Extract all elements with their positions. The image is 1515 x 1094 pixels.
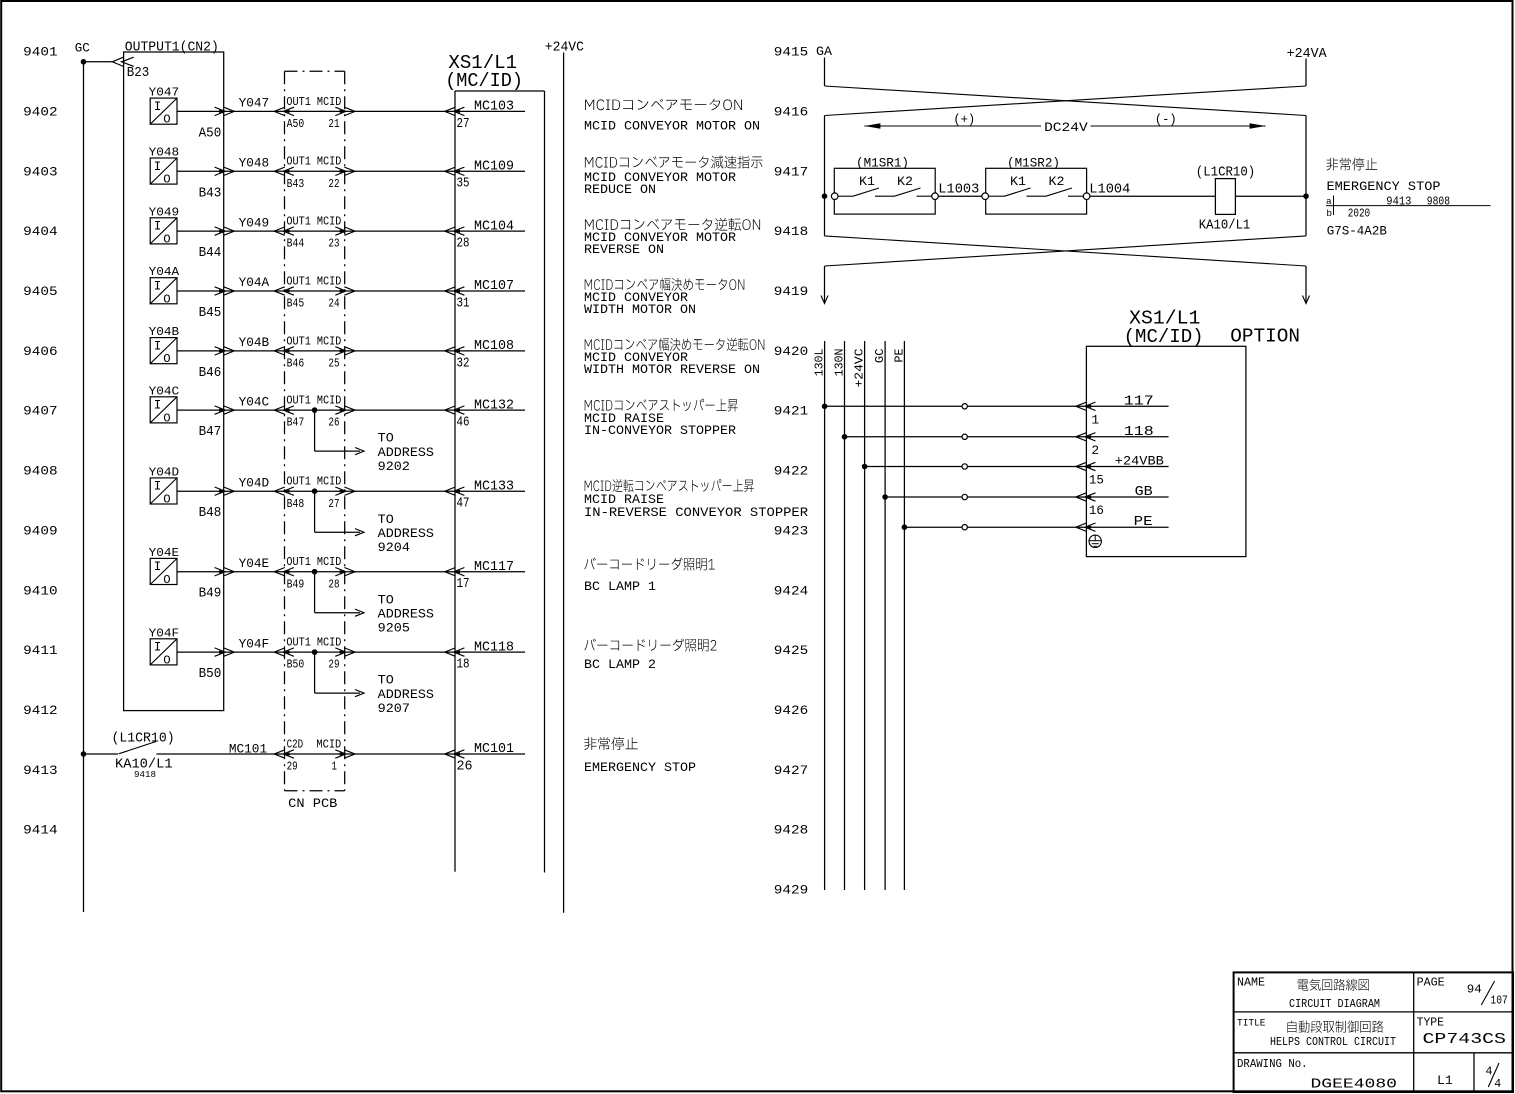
harness arrows into OPTION (117)	[1085, 402, 1096, 410]
harness arrows into OPTION (PE)	[1085, 523, 1096, 531]
wire left rail to arrow	[824, 266, 826, 303]
svg-text:WIDTH MOTOR ON: WIDTH MOTOR ON	[584, 302, 696, 317]
wire coil to right rail	[1235, 195, 1306, 197]
wire +24VA rail upper	[1305, 59, 1307, 87]
svg-text:9207: 9207	[378, 702, 410, 716]
svg-text:TO: TO	[378, 432, 394, 446]
svg-text:O: O	[163, 113, 170, 127]
svg-text:Y04F: Y04F	[239, 636, 270, 651]
node: junction 130L feed	[822, 404, 828, 410]
harness arrows out of CN PCB	[335, 648, 346, 656]
svg-text:118: 118	[1124, 425, 1154, 440]
PE earth symbol	[1089, 535, 1101, 547]
svg-text:9404: 9404	[23, 224, 58, 239]
svg-text:26: 26	[457, 759, 473, 774]
svg-text:32: 32	[457, 356, 470, 371]
svg-text:9204: 9204	[378, 541, 410, 555]
wire Y04E row	[177, 571, 525, 573]
svg-text:b: b	[1326, 208, 1332, 219]
svg-text:MC107: MC107	[474, 279, 514, 294]
svg-text:B44: B44	[199, 246, 222, 261]
harness arrows Y047 out of OUTPUT1	[215, 107, 226, 115]
wire +24VBB to OPTION connector	[865, 466, 1169, 468]
svg-text:TITLE: TITLE	[1237, 1018, 1266, 1030]
connector XS1/L1 box	[455, 90, 545, 92]
svg-text:MC133: MC133	[474, 479, 514, 494]
svg-text:ADDRESS: ADDRESS	[378, 527, 434, 541]
node: right rail junction 9417	[1303, 193, 1309, 199]
connector OUTPUT1(CN2) box	[124, 52, 224, 711]
svg-text:9424: 9424	[774, 583, 809, 598]
svg-text:18: 18	[457, 658, 470, 673]
svg-text:B49: B49	[199, 587, 222, 602]
svg-text:B43: B43	[199, 186, 222, 201]
svg-text:9405: 9405	[23, 284, 57, 299]
I/O symbol Y049	[150, 218, 177, 244]
wire branch to address 9205	[314, 572, 316, 613]
svg-text:9416: 9416	[774, 104, 808, 119]
svg-text:K1: K1	[859, 174, 875, 189]
svg-text:35: 35	[457, 177, 470, 192]
annotation JP: MCID逆転コンベアストッパー上昇	[585, 479, 754, 492]
svg-text:28: 28	[328, 577, 339, 591]
svg-text:MC108: MC108	[474, 339, 514, 354]
svg-text:OUT1 MCID: OUT1 MCID	[286, 394, 341, 408]
svg-text:9406: 9406	[23, 344, 57, 359]
contact terminals M1SR1	[831, 193, 838, 200]
svg-text:BC LAMP 2: BC LAMP 2	[584, 657, 656, 672]
svg-text:(L1CR10): (L1CR10)	[112, 732, 175, 747]
svg-text:O: O	[163, 493, 170, 507]
harness arrows into CN PCB	[283, 347, 294, 355]
wire PE to OPTION connector	[904, 526, 1168, 528]
svg-text:9408: 9408	[23, 464, 57, 479]
svg-text:GC: GC	[873, 349, 887, 364]
svg-text:46: 46	[457, 416, 470, 431]
harness arrows into XS1/L1	[454, 167, 465, 175]
svg-text:+24VBB: +24VBB	[1115, 454, 1164, 469]
svg-text:9410: 9410	[23, 583, 57, 598]
GC bus wire (vertical)	[83, 62, 85, 912]
title block outer box	[1234, 972, 1513, 1092]
svg-text:(+): (+)	[953, 112, 975, 127]
svg-text:26: 26	[328, 416, 339, 430]
svg-text:9419: 9419	[774, 284, 808, 299]
harness arrows into CN PCB	[283, 107, 294, 115]
svg-text:B45: B45	[199, 306, 222, 321]
wire L1004 to coil	[1090, 195, 1215, 197]
svg-text:17: 17	[457, 577, 470, 592]
svg-text:2020: 2020	[1348, 208, 1371, 221]
svg-text:1: 1	[332, 760, 338, 774]
wire L1003	[938, 195, 982, 197]
svg-text:(MC/ID): (MC/ID)	[1124, 326, 1204, 348]
wire crossover upper (GA to right)	[825, 86, 1307, 116]
I/O symbol Y04C	[150, 397, 177, 423]
svg-text:O: O	[163, 173, 170, 187]
svg-text:I: I	[154, 399, 162, 413]
svg-text:TO: TO	[378, 674, 394, 688]
svg-text:130N: 130N	[833, 349, 847, 377]
harness arrows into XS1/L1	[454, 107, 465, 115]
wire GB to OPTION connector	[885, 496, 1169, 498]
svg-text:GB: GB	[1135, 485, 1153, 500]
svg-text:O: O	[163, 352, 170, 366]
harness arrows into CN PCB	[283, 287, 294, 295]
svg-text:9205: 9205	[378, 622, 410, 636]
bus wire PE (vertical)	[903, 341, 905, 890]
svg-text:27: 27	[457, 117, 470, 132]
svg-text:Y04C: Y04C	[239, 394, 270, 409]
harness arrows into CN PCB	[283, 487, 294, 495]
svg-text:REDUCE ON: REDUCE ON	[584, 182, 656, 197]
svg-text:27: 27	[328, 497, 339, 511]
svg-text:IN-CONVEYOR STOPPER: IN-CONVEYOR STOPPER	[584, 423, 736, 438]
wire Y04D row	[177, 490, 525, 492]
svg-text:I: I	[154, 100, 162, 114]
svg-text:DGEE4080: DGEE4080	[1311, 1077, 1398, 1093]
annotation JP: MCIDコンベアモータ減速指示	[585, 156, 763, 169]
wire right rail mid	[1305, 116, 1307, 236]
svg-text:9412: 9412	[23, 703, 57, 718]
svg-text:9425: 9425	[774, 643, 808, 658]
node: junction on GC bus at 9413	[81, 751, 87, 757]
svg-text:A50: A50	[199, 126, 222, 141]
svg-text:9418: 9418	[774, 224, 808, 239]
annotation JP: バーコードリーダ照明2	[584, 639, 716, 652]
annotation JP: MCIDコンベア幅決めモータON	[585, 278, 745, 291]
wire branch to address 9207	[314, 652, 316, 693]
harness arrows into XS1/L1	[454, 568, 465, 576]
inline connector circle on 117 wire	[962, 404, 967, 409]
annotation JP: MCIDコンベアストッパー上昇	[585, 399, 738, 412]
connector XS1/L1 OPTION box	[1086, 346, 1246, 556]
contacts K1 K2 M1SR1	[838, 195, 853, 197]
bus wire GC (vertical)	[884, 341, 886, 890]
svg-text:Y049: Y049	[239, 215, 270, 230]
svg-text:9417: 9417	[774, 164, 808, 179]
wire right rail to arrow	[1305, 266, 1307, 303]
harness arrows out of CN PCB	[335, 167, 346, 175]
harness arrows out of CN PCB	[335, 227, 346, 235]
svg-text:NAME: NAME	[1237, 977, 1265, 990]
svg-text:MC109: MC109	[474, 160, 514, 175]
svg-text:REVERSE ON: REVERSE ON	[584, 242, 664, 257]
svg-text:Y047: Y047	[149, 86, 180, 100]
svg-text:OUT1 MCID: OUT1 MCID	[286, 274, 341, 288]
wire crossover upper (+24VA to left)	[825, 86, 1307, 116]
svg-text:15: 15	[1089, 473, 1104, 488]
svg-text:(-): (-)	[1155, 112, 1177, 127]
annotation JP: バーコードリーダ照明1	[584, 558, 714, 571]
svg-text:9413: 9413	[23, 763, 57, 778]
svg-text:I: I	[154, 220, 162, 234]
svg-text:MC104: MC104	[474, 219, 514, 234]
svg-text:47: 47	[457, 497, 470, 512]
svg-text:GC: GC	[75, 41, 90, 56]
svg-text:9420: 9420	[774, 344, 808, 359]
svg-text:C2D: C2D	[287, 737, 304, 751]
svg-text:9411: 9411	[23, 643, 58, 658]
svg-text:+24VA: +24VA	[1287, 47, 1328, 62]
harness arrows out of CN PCB	[335, 568, 346, 576]
svg-text:PAGE: PAGE	[1417, 977, 1445, 990]
harness arrows into XS1/L1	[454, 287, 465, 295]
harness arrows Y04B out of OUTPUT1	[215, 347, 226, 355]
harness arrows out of CN PCB	[335, 107, 346, 115]
svg-text:MCID: MCID	[316, 737, 341, 751]
svg-text:9413: 9413	[1386, 196, 1411, 209]
svg-text:OUT1 MCID: OUT1 MCID	[286, 334, 341, 348]
I/O symbol Y04B	[150, 338, 177, 364]
svg-text:9421: 9421	[774, 404, 809, 419]
svg-text:B49: B49	[287, 577, 305, 591]
svg-text:MC117: MC117	[474, 560, 514, 575]
svg-text:I: I	[154, 560, 162, 574]
node: junction PE feed	[902, 524, 908, 530]
safety relay block M1SR2 box	[986, 168, 1087, 214]
wire Y048 row	[177, 170, 525, 172]
wire branch to address 9204	[314, 491, 316, 532]
svg-text:Y04E: Y04E	[239, 556, 270, 571]
svg-text:Y048: Y048	[239, 156, 270, 171]
svg-text:Y049: Y049	[149, 205, 180, 219]
annotation DC24V with span arrows	[864, 125, 1041, 127]
svg-text:BC LAMP 1: BC LAMP 1	[584, 579, 656, 594]
inline connector circle on 118 wire	[962, 434, 967, 439]
svg-text:130L: 130L	[813, 349, 827, 377]
harness arrows into CN PCB	[283, 227, 294, 235]
svg-text:OPTION: OPTION	[1230, 326, 1300, 348]
svg-text:GA: GA	[816, 44, 832, 59]
svg-text:B48: B48	[287, 497, 305, 511]
svg-text:B50: B50	[199, 667, 222, 682]
harness arrows into CN PCB	[283, 406, 294, 414]
svg-text:16: 16	[1089, 503, 1104, 518]
title block dividers	[1234, 1011, 1513, 1013]
harness arrows into CN PCB	[283, 648, 294, 656]
wire 117 to OPTION connector	[825, 405, 1169, 407]
wire Y049 row	[177, 230, 525, 232]
svg-text:ADDRESS: ADDRESS	[378, 688, 434, 702]
I/O symbol Y047	[150, 98, 177, 124]
node: junction 130N feed	[842, 434, 848, 440]
svg-text:B46: B46	[199, 366, 222, 381]
safety relay block M1SR1 box	[834, 168, 935, 214]
svg-text:B47: B47	[287, 416, 305, 430]
annotation JP: 非常停止 (right)	[1327, 158, 1378, 171]
harness arrows Y049 out of OUTPUT1	[215, 227, 226, 235]
svg-text:B46: B46	[287, 357, 305, 371]
svg-text:28: 28	[457, 237, 470, 252]
inline connector circle on +24VBB wire	[962, 464, 967, 469]
harness arrows Y04D out of OUTPUT1	[215, 487, 226, 495]
harness arrows out of CN PCB (MC101)	[335, 750, 346, 758]
wire 118 to OPTION connector	[845, 436, 1169, 438]
wire Y04B row	[177, 350, 525, 352]
harness arrows Y04A out of OUTPUT1	[215, 287, 226, 295]
harness arrows into XS1/L1	[454, 648, 465, 656]
bus wire 130L (vertical)	[824, 341, 826, 890]
svg-text:9414: 9414	[23, 823, 58, 838]
svg-text:Y04D: Y04D	[239, 475, 270, 490]
svg-text:PE: PE	[1134, 515, 1153, 530]
svg-text:O: O	[163, 653, 170, 667]
svg-text:OUTPUT1(CN2): OUTPUT1(CN2)	[125, 40, 219, 56]
svg-text:G7S-4A2B: G7S-4A2B	[1327, 224, 1388, 239]
svg-text:CIRCUIT DIAGRAM: CIRCUIT DIAGRAM	[1289, 997, 1380, 1011]
wire Y04A row	[177, 290, 525, 292]
I/O symbol Y04F	[150, 639, 177, 665]
svg-text:4: 4	[1494, 1078, 1501, 1091]
svg-text:L1004: L1004	[1089, 182, 1130, 197]
svg-text:K1: K1	[1010, 174, 1026, 189]
annotation JP: MCIDコンベアモータON	[585, 99, 742, 111]
contact KA10/L1 NO contact	[84, 753, 119, 755]
svg-text:94: 94	[1467, 984, 1482, 997]
svg-text:TO: TO	[378, 513, 394, 527]
svg-text:I: I	[154, 280, 162, 294]
svg-text:2: 2	[1091, 443, 1099, 458]
wire Y04C row	[177, 409, 525, 411]
svg-text:29: 29	[287, 760, 298, 774]
svg-text:KA10/L1: KA10/L1	[1199, 218, 1251, 233]
svg-text:MC118: MC118	[474, 640, 514, 655]
svg-text:31: 31	[457, 296, 470, 311]
svg-text:9429: 9429	[774, 883, 808, 898]
svg-text:TYPE: TYPE	[1417, 1017, 1444, 1030]
svg-text:OUT1 MCID: OUT1 MCID	[286, 555, 341, 569]
svg-text:O: O	[163, 411, 170, 425]
svg-text:ADDRESS: ADDRESS	[378, 446, 434, 460]
svg-text:K2: K2	[1049, 174, 1065, 189]
svg-text:21: 21	[328, 117, 339, 131]
svg-text:A50: A50	[287, 117, 305, 131]
svg-text:DRAWING No.: DRAWING No.	[1237, 1058, 1308, 1071]
harness arrows into OPTION (118)	[1085, 433, 1096, 441]
svg-text:B47: B47	[199, 425, 222, 440]
svg-text:9423: 9423	[774, 523, 808, 538]
node: left rail junction 9417	[822, 193, 828, 199]
harness arrows out of CN PCB	[335, 347, 346, 355]
harness arrows into XS1/L1 (MC101)	[454, 750, 465, 758]
svg-text:9402: 9402	[23, 104, 57, 119]
wire Y04F row	[177, 651, 525, 653]
harness arrows into CN PCB (MC101)	[283, 750, 294, 758]
svg-text:23: 23	[328, 237, 339, 251]
harness arrows into CN PCB	[283, 568, 294, 576]
wire GA rail upper	[824, 58, 826, 87]
node: junction +24VC feed	[862, 464, 868, 470]
svg-text:HELPS CONTROL CIRCUIT: HELPS CONTROL CIRCUIT	[1270, 1035, 1396, 1049]
harness arrows out of CN PCB	[335, 287, 346, 295]
svg-text:CN PCB: CN PCB	[288, 796, 337, 811]
+24VC bus wire (vertical)	[563, 53, 565, 913]
svg-text:MC103: MC103	[474, 100, 514, 115]
svg-text:9401: 9401	[23, 45, 58, 60]
node: GC junction at 9401	[81, 59, 87, 65]
svg-text:OUT1 MCID: OUT1 MCID	[286, 475, 341, 489]
svg-text:Y047: Y047	[239, 96, 270, 111]
svg-text:9202: 9202	[378, 460, 410, 474]
svg-text:IN-REVERSE CONVEYOR STOPPER: IN-REVERSE CONVEYOR STOPPER	[584, 505, 808, 520]
wire Y047 row	[177, 110, 525, 112]
svg-text:B50: B50	[287, 658, 305, 672]
svg-text:EMERGENCY STOP: EMERGENCY STOP	[1327, 179, 1441, 194]
node: branch junction Y04C	[312, 407, 318, 413]
svg-text:9808: 9808	[1427, 196, 1450, 209]
svg-text:DC24V: DC24V	[1044, 120, 1088, 135]
svg-text:MC132: MC132	[474, 398, 514, 413]
svg-text:9418: 9418	[134, 769, 156, 780]
bus wire +24VC (vertical)	[864, 341, 866, 890]
svg-text:9415: 9415	[774, 45, 808, 60]
harness arrows Y048 out of OUTPUT1	[215, 167, 226, 175]
svg-text:I: I	[154, 160, 162, 174]
svg-text:+24VC: +24VC	[545, 41, 584, 56]
svg-text:9428: 9428	[774, 823, 808, 838]
relay coil KA10/L1	[1215, 179, 1235, 215]
svg-text:(MC/ID): (MC/ID)	[445, 70, 523, 92]
svg-text:WIDTH MOTOR REVERSE ON: WIDTH MOTOR REVERSE ON	[584, 362, 760, 377]
node: branch junction Y04D	[312, 488, 318, 494]
wire crossover lower (left to right)	[825, 236, 1307, 266]
svg-text:Y04A: Y04A	[239, 275, 270, 290]
contact terminals M1SR2	[982, 193, 989, 200]
svg-text:B45: B45	[287, 297, 305, 311]
wire left rail mid	[824, 116, 826, 236]
svg-text:MC101: MC101	[474, 742, 514, 757]
svg-text:OUT1 MCID: OUT1 MCID	[286, 215, 341, 229]
svg-text:MC101: MC101	[229, 742, 267, 757]
svg-text:1: 1	[1091, 413, 1099, 428]
svg-text:OUT1 MCID: OUT1 MCID	[286, 155, 341, 169]
wire crossover lower (right to left)	[825, 236, 1307, 266]
node: branch junction Y04E	[312, 569, 318, 575]
svg-text:O: O	[163, 573, 170, 587]
svg-text:9422: 9422	[774, 464, 808, 479]
I/O symbol Y04E	[150, 558, 177, 584]
svg-text:TO: TO	[378, 593, 394, 607]
svg-text:O: O	[163, 292, 170, 306]
harness arrows into OPTION (+24VBB)	[1085, 462, 1096, 470]
annotation JP: MCIDコンベア幅決めモータ逆転ON	[585, 338, 765, 351]
harness arrows into XS1/L1	[454, 487, 465, 495]
svg-text:25: 25	[328, 357, 339, 371]
svg-text:OUT1 MCID: OUT1 MCID	[286, 636, 341, 650]
svg-text:O: O	[163, 232, 170, 246]
bus wire 130N (vertical)	[844, 341, 846, 890]
wire 9413 to CN PCB	[157, 753, 526, 755]
svg-text:PE: PE	[892, 349, 906, 363]
svg-text:B23: B23	[127, 66, 150, 81]
svg-text:MCID CONVEYOR MOTOR ON: MCID CONVEYOR MOTOR ON	[584, 119, 760, 134]
node: junction GC feed	[882, 494, 888, 500]
harness arrows into XS1/L1	[454, 227, 465, 235]
svg-text:OUT1 MCID: OUT1 MCID	[286, 95, 341, 109]
svg-text:L1003: L1003	[938, 182, 979, 197]
svg-text:9409: 9409	[23, 523, 57, 538]
svg-text:29: 29	[328, 658, 339, 672]
svg-text:117: 117	[1124, 394, 1154, 409]
svg-text:+24VC: +24VC	[853, 349, 867, 388]
wire branch to address 9202	[314, 410, 316, 451]
harness arrows into XS1/L1	[454, 347, 465, 355]
svg-text:I: I	[154, 480, 162, 494]
harness arrows out of CN PCB	[335, 487, 346, 495]
harness arrows B23 into OUTPUT1	[112, 57, 123, 66]
svg-text:B43: B43	[287, 177, 305, 191]
